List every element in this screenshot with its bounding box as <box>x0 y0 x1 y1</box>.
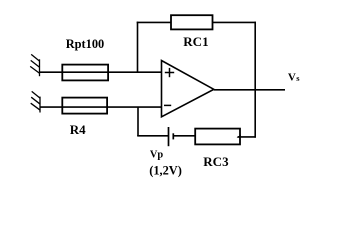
svg-text:(1,2V): (1,2V) <box>149 164 182 178</box>
op-amp U1 triangle <box>162 61 214 117</box>
wire left vertical from top rail to non-inverting input <box>137 22 139 73</box>
wire non-inverting (+) input <box>40 71 162 73</box>
resistor RC1 <box>171 15 213 29</box>
svg-text:RC3: RC3 <box>203 154 229 169</box>
battery Vp short plate <box>172 133 174 139</box>
wire battery to RC3 <box>173 135 195 137</box>
junction wedge at RC3 output <box>237 135 241 138</box>
op-amp plus marker <box>165 68 174 77</box>
battery Vp long plate <box>168 127 170 146</box>
resistor R4 <box>62 98 107 114</box>
svg-text:RC1: RC1 <box>183 34 208 49</box>
wire top rail right segment <box>212 21 256 23</box>
wire output <box>214 89 285 91</box>
svg-text:R4: R4 <box>70 122 86 137</box>
op-amp minus marker <box>164 104 171 106</box>
wire from inverting input down to feedback branch <box>137 107 139 136</box>
svg-text:Vs: Vs <box>288 71 300 83</box>
wire right vertical (feedback to output) <box>254 22 256 138</box>
wire feedback branch to battery <box>137 135 168 137</box>
resistor RC3 <box>195 129 240 145</box>
resistor Rpt100 <box>62 65 108 81</box>
wire RC3 to right vertical <box>238 136 256 138</box>
wire inverting (-) input <box>40 106 162 108</box>
svg-text:Rpt100: Rpt100 <box>66 37 105 51</box>
ground (chassis) bottom-left <box>31 91 41 112</box>
ground (chassis) top-left <box>30 54 40 76</box>
svg-text:Vp: Vp <box>150 149 164 160</box>
wire top rail left segment <box>137 21 172 23</box>
